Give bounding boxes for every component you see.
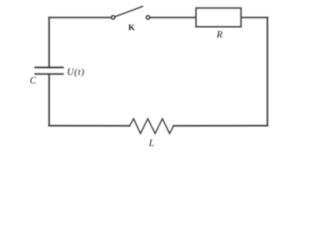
switch contact left (111, 16, 115, 20)
wire left vertical upper (48, 18, 50, 68)
svg-text:L: L (148, 138, 154, 149)
wire resistor to top-right corner (241, 17, 267, 19)
wire switch to resistor (150, 17, 196, 19)
switch arm (115, 6, 143, 16)
wire bottom-left horizontal (49, 125, 130, 127)
wire right vertical (266, 18, 268, 126)
switch K (111, 6, 150, 19)
capacitor C plates (34, 67, 63, 74)
inductor L zigzag (130, 119, 174, 134)
wire left vertical lower (48, 74, 50, 125)
switch contact right (146, 16, 150, 20)
svg-text:K: K (128, 22, 135, 32)
wire top-left horizontal (49, 17, 111, 19)
resistor R (196, 8, 241, 27)
wire bottom-right horizontal (174, 125, 268, 127)
svg-text:U(t): U(t) (67, 67, 85, 78)
svg-text:C: C (30, 76, 37, 87)
svg-text:R: R (216, 29, 223, 40)
